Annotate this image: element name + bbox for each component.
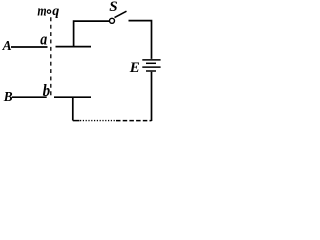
svg-text:S: S [109,0,117,15]
svg-text:b: b [43,82,51,100]
svg-text:A: A [2,38,12,53]
svg-text:q: q [52,4,59,19]
svg-text:B: B [3,88,13,103]
svg-text:m: m [37,2,46,19]
svg-text:a: a [40,30,47,48]
svg-text:E: E [129,60,140,76]
